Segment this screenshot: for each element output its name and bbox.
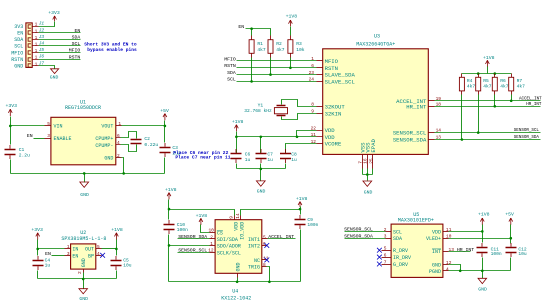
svg-text:1: 1: [35, 55, 38, 61]
svg-text:2: 2: [77, 271, 83, 274]
svg-text:SDA: SDA: [72, 35, 81, 41]
svg-text:RSTN: RSTN: [224, 63, 236, 69]
svg-text:SENSOR_SDA: SENSOR_SDA: [178, 234, 207, 240]
svg-text:4k7: 4k7: [517, 84, 526, 90]
connector J1: [26, 23, 39, 68]
note: short 3V3 and EN: [84, 42, 137, 53]
capacitor C1: [5, 126, 31, 174]
wire SENSOR_SCL to U4: [178, 252, 216, 254]
wire INT1 ACCEL_INT: [262, 238, 296, 240]
IC U2 SPX3819M5-L-1-8: [61, 230, 106, 269]
wire R5 to SENSOR_SCL: [478, 95, 480, 133]
svg-text:3: 3: [47, 133, 50, 139]
power +3V3 (U1): [6, 103, 18, 116]
svg-text:VDD: VDD: [432, 229, 441, 235]
svg-text:12: 12: [311, 139, 317, 145]
wire U3 VSS pins to ground: [363, 155, 373, 181]
wire VOUT to +5V: [116, 125, 167, 128]
capacitor C8: [280, 149, 297, 169]
svg-text:+3V3: +3V3: [6, 103, 18, 109]
svg-text:IO_VDD: IO_VDD: [240, 222, 246, 240]
svg-text:1: 1: [210, 241, 213, 247]
svg-text:Y1: Y1: [258, 103, 264, 109]
U5 pin numbers: [384, 227, 455, 272]
svg-text:NC: NC: [254, 258, 260, 264]
svg-text:R1: R1: [257, 41, 263, 47]
svg-text:1u: 1u: [45, 263, 51, 269]
svg-text:SDO/ADOR: SDO/ADOR: [217, 244, 241, 250]
svg-text:VOUT: VOUT: [101, 124, 113, 130]
wire VDD rail: [235, 131, 322, 139]
svg-text:VCORE: VCORE: [325, 141, 342, 148]
svg-text:12: 12: [446, 260, 452, 266]
power +3V3 (connector): [48, 10, 60, 21]
note: place C6 C7: [173, 150, 231, 161]
wire R3 to RSTN: [290, 58, 292, 68]
wire EN: [39, 32, 81, 34]
svg-text:+1V8: +1V8: [165, 187, 177, 193]
svg-text:R3: R3: [296, 41, 302, 47]
svg-text:R6: R6: [500, 78, 506, 84]
wire VDD to +1V8: [443, 230, 484, 233]
wire +1V8 to CS: [201, 225, 216, 233]
wire R7 to ACCEL_INT: [511, 95, 513, 101]
wire SENSOR_SCL to U5: [345, 231, 392, 233]
svg-text:VDD: VDD: [233, 222, 239, 231]
svg-text:6: 6: [311, 63, 314, 69]
svg-text:C2: C2: [144, 136, 150, 142]
resistor R5: [476, 74, 492, 95]
svg-text:SDA: SDA: [227, 70, 236, 76]
svg-text:EN: EN: [72, 254, 78, 260]
svg-text:SPX3819M5-L-1-8: SPX3819M5-L-1-8: [61, 236, 106, 242]
svg-text:RSTN: RSTN: [69, 54, 81, 60]
U1 pin numbers: [47, 121, 121, 159]
wire +3V3 to U2 IN: [36, 240, 70, 251]
wire EN rail: [246, 29, 271, 36]
resistor R1: [249, 36, 266, 58]
svg-text:4k7: 4k7: [257, 47, 266, 53]
svg-text:SCL: SCL: [14, 44, 23, 50]
resistor R2: [268, 36, 285, 58]
wire SENSOR_SDA to U4: [178, 238, 216, 240]
resistor R6: [492, 74, 508, 95]
resistor R7: [509, 74, 525, 95]
wire U4 ground rail: [169, 281, 301, 283]
svg-text:INT: INT: [432, 249, 441, 255]
svg-text:C4: C4: [45, 257, 51, 263]
svg-text:SCL: SCL: [72, 41, 81, 47]
svg-text:GND: GND: [80, 192, 89, 198]
svg-text:R7: R7: [517, 78, 523, 84]
wire U4 IO_VDD rail right: [241, 208, 302, 220]
wire MFIO: [39, 52, 81, 54]
svg-text:SDA: SDA: [393, 236, 402, 242]
ground (U3): [363, 181, 373, 196]
svg-text:MFIO: MFIO: [69, 48, 81, 54]
svg-text:IR_DRV: IR_DRV: [393, 255, 411, 261]
svg-text:GND: GND: [104, 156, 113, 162]
svg-text:GND: GND: [79, 296, 88, 302]
svg-text:GND: GND: [364, 190, 373, 196]
svg-text:EPAD: EPAD: [370, 139, 377, 153]
no-connect NC: [262, 258, 270, 263]
svg-text:1: 1: [67, 244, 70, 250]
svg-text:4k7: 4k7: [483, 84, 492, 90]
svg-text:14: 14: [235, 213, 241, 219]
svg-text:8: 8: [263, 262, 266, 268]
svg-text:4k7: 4k7: [467, 84, 476, 90]
power +1V8 (U2): [111, 227, 123, 248]
wire R6 to HR_INT: [494, 95, 496, 107]
junction: [250, 27, 253, 30]
svg-text:SDI/SDA: SDI/SDA: [217, 237, 238, 243]
power +5V (U1): [160, 108, 169, 126]
svg-text:GND: GND: [478, 286, 487, 292]
wire U2 ground rail: [38, 278, 117, 289]
wire SENSOR_SCL: [429, 132, 541, 134]
svg-text:CS: CS: [217, 230, 223, 236]
svg-text:1: 1: [35, 22, 38, 28]
svg-text:HR_INT: HR_INT: [457, 247, 474, 253]
connector J1 pin names: [11, 24, 23, 70]
svg-text:GND: GND: [257, 189, 266, 195]
svg-text:6: 6: [117, 133, 120, 139]
svg-text:1: 1: [35, 61, 38, 67]
svg-text:5: 5: [97, 244, 100, 250]
wire SDO/ADOR to ground: [168, 244, 216, 247]
svg-text:10: 10: [208, 228, 214, 234]
svg-text:SLAVE_SCL: SLAVE_SCL: [325, 78, 355, 85]
svg-text:RSTN: RSTN: [11, 57, 23, 63]
svg-text:2.2u: 2.2u: [19, 152, 30, 158]
svg-text:100n: 100n: [177, 227, 188, 233]
svg-text:+3V3: +3V3: [48, 10, 60, 16]
svg-text:19: 19: [436, 96, 442, 102]
IC U4 KX122-1042: [215, 220, 262, 302]
svg-text:10k: 10k: [296, 47, 305, 53]
svg-text:SCL: SCL: [393, 229, 402, 235]
power +3V3 (U2): [31, 227, 43, 240]
IC U5 MAX30101EFD+: [391, 212, 443, 277]
wire SDA to U3: [237, 74, 323, 76]
svg-text:GND: GND: [81, 258, 87, 267]
wire U4 GND pin: [236, 274, 239, 284]
wire SCL to U3: [237, 81, 323, 83]
U4 pin numbers: [208, 213, 269, 268]
svg-text:4: 4: [446, 266, 449, 272]
svg-text:13: 13: [449, 247, 455, 253]
wire SENSOR_SDA to U5: [345, 238, 392, 240]
svg-text:+1V8: +1V8: [483, 55, 495, 61]
svg-text:9: 9: [228, 216, 234, 219]
svg-text:11: 11: [446, 227, 452, 233]
capacitor C6: [231, 137, 251, 169]
svg-text:Place C7 near pin 11: Place C7 near pin 11: [175, 155, 230, 161]
svg-text:U3: U3: [374, 33, 380, 39]
svg-text:4k7: 4k7: [500, 84, 509, 90]
power +1V8 (U5): [478, 212, 490, 232]
svg-text:MFIO: MFIO: [11, 50, 23, 56]
svg-text:1u: 1u: [245, 157, 251, 163]
svg-text:+5V: +5V: [160, 108, 169, 114]
svg-text:BP: BP: [88, 254, 94, 260]
svg-text:2: 2: [117, 153, 120, 159]
svg-text:GND: GND: [50, 75, 59, 81]
no-connect R_DRV: [377, 248, 392, 253]
power +1V8 (R3): [286, 13, 298, 26]
svg-text:100n: 100n: [307, 222, 318, 228]
wire RSTN to U3: [237, 67, 323, 69]
U3 bottom pin numbers: [358, 158, 375, 164]
no-connect INT2: [262, 243, 270, 248]
svg-text:REG71050DDCR: REG71050DDCR: [65, 105, 101, 111]
svg-text:C9: C9: [307, 217, 313, 223]
svg-text:R2: R2: [276, 41, 282, 47]
svg-text:+1V8: +1V8: [296, 196, 308, 202]
svg-text:23: 23: [309, 70, 315, 76]
ground (U2): [79, 289, 88, 303]
wire VCORE to C8: [286, 144, 323, 154]
svg-text:IN: IN: [72, 247, 78, 253]
svg-text:INT1: INT1: [248, 237, 260, 243]
svg-text:GND: GND: [236, 262, 242, 271]
svg-text:3V3: 3V3: [14, 24, 23, 30]
svg-text:32KIN: 32KIN: [325, 110, 342, 117]
wire ACCEL_INT: [429, 100, 541, 102]
capacitor C11: [477, 232, 502, 271]
svg-text:EN: EN: [75, 28, 81, 34]
power +1V8 (pullups R4-R7): [483, 55, 495, 74]
wire SCL: [39, 45, 81, 47]
capacitor C7: [256, 137, 274, 169]
wire R1 to SCL: [251, 58, 253, 82]
svg-text:4: 4: [97, 251, 100, 257]
wire U1 ground rail: [11, 172, 165, 182]
svg-text:1: 1: [35, 42, 38, 48]
capacitor C12: [506, 239, 527, 271]
svg-text:+5V: +5V: [505, 212, 514, 218]
svg-text:HR_INT: HR_INT: [526, 103, 542, 107]
connector J1 pin numbers: [35, 21, 45, 68]
svg-text:+1V8: +1V8: [478, 212, 490, 218]
power +1V8 (U4 CS): [196, 213, 208, 225]
ground (C6-C8): [256, 181, 265, 195]
svg-text:5: 5: [47, 121, 50, 127]
svg-text:11: 11: [311, 132, 317, 138]
capacitor C4: [33, 249, 51, 279]
wire R2 to SDA: [270, 58, 272, 75]
wire RSTN: [39, 59, 81, 61]
svg-text:3: 3: [67, 251, 70, 257]
wire pin7 to GND: [39, 66, 55, 69]
wire U2 OUT to +1V8: [96, 248, 118, 251]
svg-text:OUT: OUT: [85, 247, 94, 253]
svg-text:R5: R5: [483, 78, 489, 84]
svg-text:KX122-1042: KX122-1042: [221, 295, 251, 301]
wire EN to U2: [52, 255, 71, 257]
svg-text:5: 5: [263, 234, 266, 240]
ground (U1): [80, 182, 89, 198]
wire SDA: [39, 39, 81, 41]
IC U3 MAX32664GTGA+: [323, 33, 429, 154]
svg-text:U4: U4: [232, 289, 238, 295]
capacitor C2 (flying): [116, 132, 159, 152]
svg-text:EN: EN: [45, 251, 51, 257]
wire pullup rail: [462, 72, 512, 75]
svg-text:1: 1: [311, 56, 314, 62]
svg-text:MFIO: MFIO: [224, 56, 236, 62]
wire U4 VDD rail left: [168, 208, 235, 220]
svg-text:CPUMP+: CPUMP+: [95, 136, 113, 142]
svg-text:R4: R4: [467, 78, 473, 84]
svg-text:ACCEL_INT: ACCEL_INT: [519, 97, 542, 101]
svg-text:MAX30101EFD+: MAX30101EFD+: [398, 218, 434, 224]
wire U5 GND pin: [443, 265, 462, 273]
svg-text:+1V8: +1V8: [196, 213, 208, 219]
crystal Y1 32.768 kHz: [244, 103, 287, 116]
no-connect U2 BP: [96, 253, 106, 258]
svg-text:HR_INT: HR_INT: [406, 103, 427, 110]
svg-text:SENSOR_SDA: SENSOR_SDA: [514, 136, 540, 140]
capacitor C5: [111, 249, 132, 279]
capacitor C3: [160, 126, 181, 174]
svg-text:EN: EN: [238, 24, 244, 30]
svg-text:4: 4: [117, 140, 120, 146]
wire VLED+ to +5V: [443, 237, 513, 240]
power +1V8 (C9): [296, 196, 308, 210]
wire U1 GND pin: [116, 158, 124, 174]
power +5V (U5): [505, 212, 514, 239]
svg-text:EN: EN: [17, 31, 23, 37]
svg-text:1: 1: [35, 35, 38, 41]
wire HR_INT: [429, 106, 541, 108]
svg-text:+3V3: +3V3: [31, 227, 43, 233]
wire INT HR_INT: [443, 251, 471, 253]
svg-text:MAX32664GTGA+: MAX32664GTGA+: [356, 41, 395, 47]
U2 pin numbers: [67, 244, 100, 274]
svg-text:J3: J3: [39, 34, 45, 40]
ground (connector): [50, 69, 59, 81]
svg-text:VIN: VIN: [54, 124, 63, 130]
svg-text:32.768 kHz: 32.768 kHz: [244, 108, 272, 114]
resistor R4: [459, 74, 475, 95]
svg-text:INT2: INT2: [248, 244, 260, 250]
IC U1 REG71050DDCR: [51, 100, 116, 165]
svg-text:1: 1: [35, 28, 38, 34]
svg-text:R_DRV: R_DRV: [393, 248, 408, 254]
svg-text:Short 3V3 and EN to: Short 3V3 and EN to: [84, 42, 137, 48]
svg-text:GND: GND: [14, 64, 23, 70]
svg-text:SENSOR_SCL: SENSOR_SCL: [514, 129, 540, 133]
svg-text:25: 25: [368, 158, 374, 164]
svg-text:SCLK/SCL: SCLK/SCL: [217, 250, 241, 256]
svg-text:C7: C7: [267, 151, 273, 157]
power +1V8 (C10): [165, 187, 177, 209]
svg-text:C5: C5: [123, 257, 129, 263]
wire MFIO to U3: [237, 60, 323, 62]
no-connect IR_DRV: [377, 255, 392, 260]
wire SENSOR_SDA: [429, 139, 541, 141]
wire +3V3 to VIN: [9, 117, 51, 128]
svg-text:U2: U2: [80, 230, 86, 236]
svg-text:10u: 10u: [123, 263, 132, 269]
svg-text:C1: C1: [19, 147, 25, 153]
svg-text:4k7: 4k7: [276, 47, 285, 53]
wire EN to ENABLE: [34, 138, 51, 140]
svg-text:+1V8: +1V8: [232, 119, 244, 125]
svg-text:GND: GND: [432, 262, 441, 268]
capacitor C10: [164, 210, 189, 282]
svg-text:C6: C6: [245, 151, 251, 157]
svg-text:SENSOR_SDA: SENSOR_SDA: [393, 137, 427, 144]
wire TRIG to ground: [262, 267, 271, 284]
svg-text:G_DRV: G_DRV: [393, 262, 408, 268]
svg-text:2: 2: [210, 234, 213, 240]
svg-text:+1V8: +1V8: [286, 13, 298, 19]
wire U5 PGND rail: [443, 270, 511, 279]
svg-text:PGND: PGND: [429, 269, 441, 275]
U3 pin numbers right: [436, 96, 442, 141]
svg-text:SDA: SDA: [14, 37, 23, 43]
svg-text:100n: 100n: [491, 251, 502, 257]
wire crystal to 32KIN: [282, 114, 323, 120]
svg-text:ACCEL_INT: ACCEL_INT: [268, 234, 294, 240]
no-connect G_DRV: [377, 262, 392, 267]
svg-text:J1: J1: [39, 21, 45, 27]
svg-text:10u: 10u: [518, 251, 527, 257]
svg-text:24: 24: [309, 77, 315, 83]
wire cap ground rail: [237, 168, 286, 181]
svg-text:1u: 1u: [267, 157, 273, 163]
resistor R3: [288, 27, 305, 58]
ground (U5): [478, 278, 487, 292]
svg-text:TRIG: TRIG: [248, 265, 260, 271]
svg-text:CPUMP-: CPUMP-: [95, 143, 113, 149]
power +1V8 (VDD rail): [232, 119, 244, 131]
svg-text:1: 1: [118, 121, 121, 127]
svg-text:ENABLE: ENABLE: [54, 136, 72, 142]
svg-text:J6: J6: [39, 54, 45, 60]
svg-text:C8: C8: [291, 151, 297, 157]
svg-text:VLED+: VLED+: [426, 236, 441, 242]
svg-text:bypass enable pins: bypass enable pins: [87, 47, 137, 53]
svg-text:2: 2: [384, 227, 387, 233]
wire crystal to 32KOUT: [282, 100, 323, 107]
svg-text:0.22u: 0.22u: [144, 142, 158, 148]
svg-text:1: 1: [35, 48, 38, 54]
capacitor C9: [295, 210, 319, 282]
svg-text:1u: 1u: [291, 157, 297, 163]
svg-text:EN: EN: [27, 133, 33, 139]
wire R4 to SENSOR_SDA: [461, 95, 463, 140]
wire pin1 to +3V3: [39, 22, 55, 27]
svg-text:+1V8: +1V8: [111, 227, 123, 233]
U3 pin numbers left: [309, 56, 317, 145]
wire U2 GND pin: [83, 270, 85, 279]
svg-text:SCL: SCL: [227, 77, 236, 83]
